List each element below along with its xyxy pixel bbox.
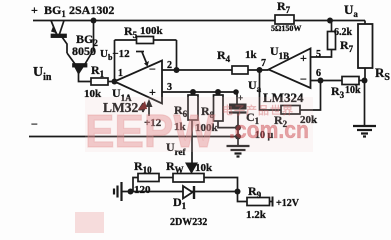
wire top rail [33,20,365,22]
svg-text:2DW232: 2DW232 [170,217,207,228]
svg-text:R3: R3 [331,84,345,100]
svg-text:7: 7 [261,58,266,69]
svg-text:U1B: U1B [270,44,289,61]
resistor R7 5ohm 150W (in top rail) [275,15,294,24]
svg-text:1k: 1k [245,49,258,61]
wire R10 to RW [159,177,173,179]
resistor R8 100k (vertical) [214,92,224,121]
transistor Q1 BG1 2SA1302 [51,21,66,38]
op-amp U1A LM324 (left-pointing) [115,61,163,104]
svg-text:−: − [31,117,38,131]
node pin7 junction [257,67,263,73]
svg-text:+: + [31,3,38,17]
supply mark U1A top (Ub -12) [136,52,149,67]
wire feedback top [115,39,177,41]
watermark tint [75,97,313,233]
terminal +12V tick [272,197,274,207]
capacitor C1 10u [229,92,247,146]
svg-text:R1: R1 [91,63,105,79]
wire U1B feedback loop [260,70,282,110]
svg-text:+: + [300,51,307,65]
svg-text:BG1: BG1 [44,3,66,19]
wire left bottom junction [123,191,238,193]
node D1 right junction [235,189,241,195]
svg-text:RS: RS [375,65,390,83]
svg-text:100k: 100k [140,25,164,37]
resistor R4 1k [232,66,248,74]
node pin6 junction [318,78,324,84]
node junction BG2 collector on rail [91,18,97,24]
node R6 top [190,89,196,95]
svg-text:R10: R10 [134,159,152,175]
resistor R7 6.2k (vertical) [328,32,336,50]
svg-text:.com.cn: .com.cn [229,117,309,144]
svg-text:2: 2 [167,60,172,71]
node C1 top [233,89,239,95]
node R8 top [215,89,221,95]
wire 6.2k to top rail [331,21,333,32]
transistor Q2 BG2 8050 [67,52,93,76]
resistor R6 1k (vertical) [188,92,198,120]
wire corner up to R10 line [133,178,138,192]
svg-text:−: − [300,72,307,86]
svg-text:+12V: +12V [276,198,300,209]
wiper arrow of RW [185,163,198,175]
svg-text:10k: 10k [195,162,213,174]
resistor R5 100k [137,37,154,44]
potentiometer RW 10k [173,174,204,183]
svg-text:10k: 10k [345,85,361,96]
diode D1 2DW232 [183,186,194,199]
node C1/bottom-rail junction [235,134,241,140]
resistor R9 1.2k [247,198,270,206]
wire feedback right leg down to pin2 [176,40,178,70]
wire pin2 line to R4 [162,69,232,71]
wire R2 to pin6 [300,81,321,111]
resistor R1 10k [91,78,108,85]
wire BG2 collector to top rail [93,21,95,52]
wire R6 down to wiper (Uref) [191,120,193,163]
wire BG1 collector to BG2 base [62,37,67,53]
svg-text:6: 6 [316,68,321,79]
node bottom-left junction [128,189,134,195]
svg-text:8050: 8050 [72,44,96,58]
supply mark U1A bottom (+12 arrow) [146,99,153,116]
node C1/R8 junction [235,125,241,131]
op-amp U1B LM324 (left-pointing) [269,49,311,89]
resistor R10 120 [138,174,159,182]
wire R1 to op-amp pin1 [108,81,115,83]
wire BG2 emitter down to R1 [79,68,92,82]
wire pin6 line [311,80,343,82]
svg-text:6.2k: 6.2k [334,27,353,38]
svg-text:Ua: Ua [344,2,358,19]
svg-text:5Ω150W: 5Ω150W [271,24,301,33]
node junction 6.2k on rail [327,18,333,24]
svg-text:5: 5 [316,49,321,60]
svg-text:3: 3 [167,82,172,93]
wire RS top stub [364,21,366,25]
svg-text:电子产品世界: 电子产品世界 [222,103,294,117]
svg-text:120: 120 [134,184,151,196]
svg-text:R7: R7 [277,0,291,15]
svg-text:−: − [149,62,156,76]
wire RS bottom to R3 node [364,68,366,81]
wire R8 bottom to C1 column [218,121,238,128]
wire bottom rail (Uin minus to ground column) [29,136,238,138]
svg-text:1: 1 [118,68,123,79]
wire to R9 [238,192,248,202]
node R3/RS junction [362,78,368,84]
svg-text:+: + [149,85,156,99]
resistor R2 20k [281,106,300,115]
svg-text:R4: R4 [217,48,231,64]
ground bottom-left (rotated) [114,182,122,201]
wire R4 to pin7 node [248,69,269,71]
wire R3 to RS bottom node [359,80,365,82]
svg-text:2SA1302: 2SA1302 [69,3,114,17]
resistor RS (vertical, right) [358,24,373,68]
wire RW right to D1 node [204,178,238,192]
ground right [353,126,376,137]
svg-text:Uin: Uin [33,65,52,83]
node pin1 junction [112,79,118,85]
watermark cursor arrow [138,101,147,110]
ground under C1 [227,146,250,157]
wire R9 to +12V terminal [270,201,273,203]
node pin2 junction [174,67,180,73]
wire pin5 to 6.2k resistor [311,50,332,58]
wire pin3 line [162,91,237,93]
wire feedback left leg (pin1 up) [114,40,116,82]
wire down to right ground [364,81,366,127]
svg-text:R5: R5 [124,24,138,40]
svg-text:R9: R9 [248,184,262,200]
svg-text:Ub−12: Ub−12 [100,48,130,62]
svg-text:EEPW: EEPW [85,105,216,157]
svg-text:RW: RW [166,159,184,175]
svg-text:R7: R7 [340,38,354,54]
svg-text:1.2k: 1.2k [246,209,267,221]
resistor R3 10k [342,77,359,85]
